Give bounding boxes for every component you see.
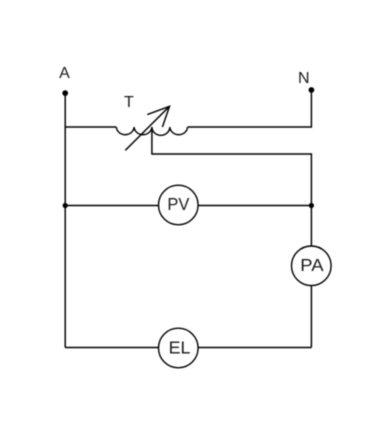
svg-text:A: A: [59, 65, 70, 82]
svg-text:EL: EL: [169, 337, 191, 357]
svg-text:N: N: [298, 70, 310, 87]
svg-text:PV: PV: [167, 194, 189, 214]
svg-text:T: T: [124, 94, 134, 111]
svg-text:PA: PA: [300, 255, 324, 275]
